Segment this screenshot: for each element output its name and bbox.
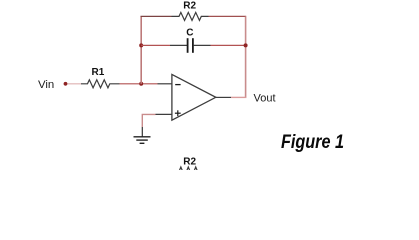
svg-text:Vin: Vin	[38, 79, 54, 91]
node junction C right	[244, 43, 248, 47]
label R1	[92, 67, 105, 78]
node Vin terminal dot	[64, 82, 68, 86]
wire ground stem	[141, 127, 143, 137]
wire op-amp output	[216, 96, 231, 98]
label R2	[183, 1, 196, 12]
label C	[186, 28, 193, 39]
wire top left horizontal to R2	[141, 15, 172, 17]
wire C branch right	[211, 44, 246, 46]
svg-text:Figure 1: Figure 1	[281, 132, 344, 153]
wire R2 to right vertical	[209, 15, 247, 17]
resistor R2	[172, 12, 209, 20]
svg-text:R1: R1	[92, 67, 105, 78]
wire feedback left vertical	[140, 16, 142, 83]
wire C branch left	[141, 44, 170, 46]
wire op-amp minus pin stub	[158, 83, 172, 85]
node junction at inverting input	[139, 82, 143, 86]
wire feedback right vertical	[245, 16, 247, 97]
svg-text:C: C	[186, 28, 193, 39]
resistor R1	[81, 80, 120, 88]
ground	[134, 137, 151, 144]
wire op-amp plus pin stub	[156, 113, 172, 115]
node Vin label	[38, 79, 54, 91]
wire plus input to ground	[142, 114, 155, 127]
op-amp U1	[172, 74, 216, 120]
capacitor C	[170, 38, 211, 53]
wire output to feedback corner	[231, 96, 246, 98]
svg-text:R2: R2	[183, 1, 196, 12]
wire R1 to inverting-input net	[120, 83, 158, 85]
resistor R2 of second figure (cropped at bottom edge)	[172, 167, 209, 176]
node Vout label	[254, 93, 276, 105]
svg-text:Vout: Vout	[254, 93, 276, 105]
label R2 (second figure, cropped)	[183, 157, 196, 168]
label Figure 1 caption	[281, 132, 344, 153]
node junction C left	[139, 43, 143, 47]
svg-text:R2: R2	[183, 157, 196, 168]
wire Vin to R1	[68, 83, 82, 85]
